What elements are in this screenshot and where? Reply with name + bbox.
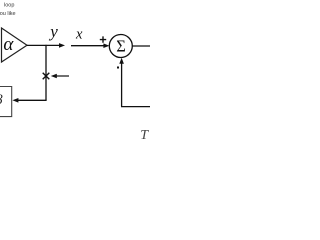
- arrowhead into beta box: [12, 98, 18, 103]
- arrowhead x into summer: [103, 43, 109, 48]
- svg-text:y: y: [48, 22, 58, 41]
- plus sign: [100, 36, 106, 42]
- wire feedback horizontal into beta box: [18, 99, 47, 101]
- svg-text:β: β: [0, 93, 3, 108]
- block B1 (beta box, clipped at left edge): [0, 87, 12, 117]
- wire feedback horizontal to right edge: [121, 106, 150, 108]
- wire summer output right: [132, 45, 150, 47]
- loop-break mark X: [43, 73, 50, 80]
- annotation arrow pointing at X: [56, 75, 69, 77]
- wire feedback vertical into summer bottom: [121, 63, 123, 107]
- svg-text:α: α: [3, 34, 14, 55]
- svg-text:loop: loop: [4, 3, 14, 9]
- wire x input: [71, 45, 104, 47]
- svg-text:x: x: [75, 26, 83, 42]
- arrowhead up into summer: [119, 58, 124, 64]
- svg-text:ou like: ou like: [0, 11, 16, 17]
- svg-text:Σ: Σ: [116, 37, 126, 56]
- summer U1 (circle): [109, 35, 132, 58]
- svg-text:T: T: [140, 128, 149, 143]
- arrowhead y: [59, 43, 65, 48]
- op-amp A1 (triangle, gain alpha): [2, 28, 28, 62]
- wire feedback vertical from y node: [45, 45, 47, 101]
- wire y output: [27, 44, 60, 46]
- minus sign (tiny dot): [117, 67, 119, 69]
